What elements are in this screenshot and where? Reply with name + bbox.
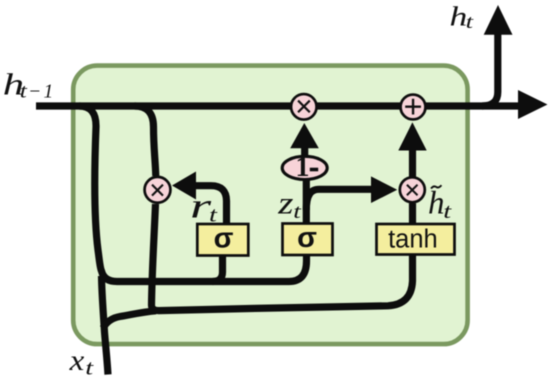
wire: sigma1 output up and left [196,186,227,224]
wire: sigma1 riser down to gate bus [213,254,223,282]
svg-text:1: 1 [296,152,310,183]
wire: h drop1 to gate bus and sigma2 riser [79,106,307,282]
svg-text:+: + [403,89,422,126]
op circle: times z (1-z gate) [291,94,317,120]
arrow head right output [518,90,548,119]
arrow head top h_t output [484,5,513,35]
arrow into reset multiply circle [172,172,196,200]
wire: x_t branch to tanh feed [103,311,156,328]
wire: reset product down and right into tanh [152,204,413,311]
wire: z branch right to x-tilde gate [306,189,371,210]
wire: ellipse to arrow stub [301,148,308,157]
op circle: plus [401,95,426,120]
arrow into x-tilde circle [371,176,397,203]
wire: h_t output branch up [482,34,498,106]
svg-text:σ: σ [214,223,234,255]
svg-text:×: × [149,174,166,207]
svg-text:σ: σ [297,222,317,254]
svg-text:x: x [69,343,85,376]
wire: x-tilde circle up toward plus [409,151,416,177]
arrow into plus circle [398,122,426,150]
svg-text:×: × [295,88,313,124]
svg-text:t: t [466,11,474,32]
wire: h drop2 into reset gate circle [135,106,156,176]
op circle: reset multiply [145,177,171,203]
svg-text:t: t [443,200,452,223]
svg-text:z: z [277,185,293,221]
svg-text:−: − [28,82,41,103]
op circle: x-tilde multiply [400,177,425,202]
svg-text:×: × [404,174,421,206]
svg-text:t: t [85,357,94,380]
gate box: tanh [377,224,455,255]
arrow into times-z circle [290,123,319,148]
label h-tilde_t [431,185,441,188]
svg-text:t: t [20,80,28,102]
svg-text:tanh: tanh [388,226,438,254]
op ellipse: 1- [282,156,327,179]
cell body green rounded box [73,66,467,345]
wire: x_t input riser [102,276,109,375]
svg-text:1: 1 [44,82,54,103]
svg-text:h: h [428,186,445,222]
wire: x-tilde circle to tanh box [409,203,416,224]
gate box: sigma z [283,224,333,256]
wire: sigma2 riser up to ellipse [303,176,310,224]
svg-text:t: t [209,204,218,227]
wire: main h line [36,102,518,109]
gate box: sigma r [197,224,248,256]
